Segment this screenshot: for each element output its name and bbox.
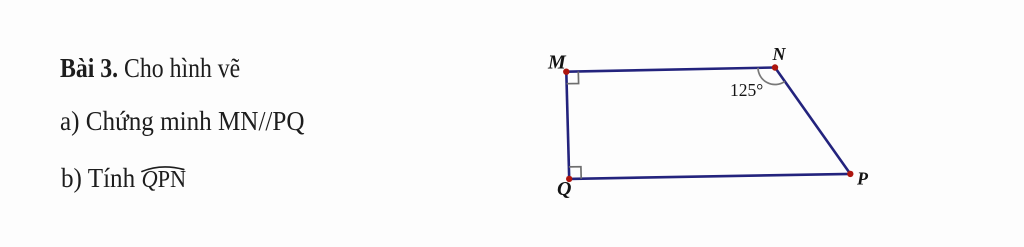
svg-text:P: P xyxy=(856,169,869,189)
line a): Chứng minh MN//PQ xyxy=(60,108,305,135)
vertex dot M xyxy=(563,69,569,75)
side QM xyxy=(566,72,569,179)
angle arc at N xyxy=(758,68,785,85)
svg-text:125°: 125° xyxy=(730,80,763,100)
right-angle mark at Q xyxy=(569,167,581,179)
right-angle mark at M xyxy=(567,72,579,84)
vertex dot Q xyxy=(566,176,572,182)
widehat over QPN xyxy=(141,165,185,173)
svg-text:Q: Q xyxy=(557,178,571,200)
vertex dot N xyxy=(772,64,778,70)
svg-text:N: N xyxy=(772,44,787,64)
line b): Tính QPN with hat xyxy=(61,165,186,192)
vertex dot P xyxy=(847,171,853,177)
side NP xyxy=(775,68,850,174)
side PQ xyxy=(569,174,850,179)
heading line: Bài 3. Cho hình vẽ xyxy=(60,55,240,82)
svg-text:M: M xyxy=(547,52,567,74)
side MN xyxy=(566,68,775,72)
